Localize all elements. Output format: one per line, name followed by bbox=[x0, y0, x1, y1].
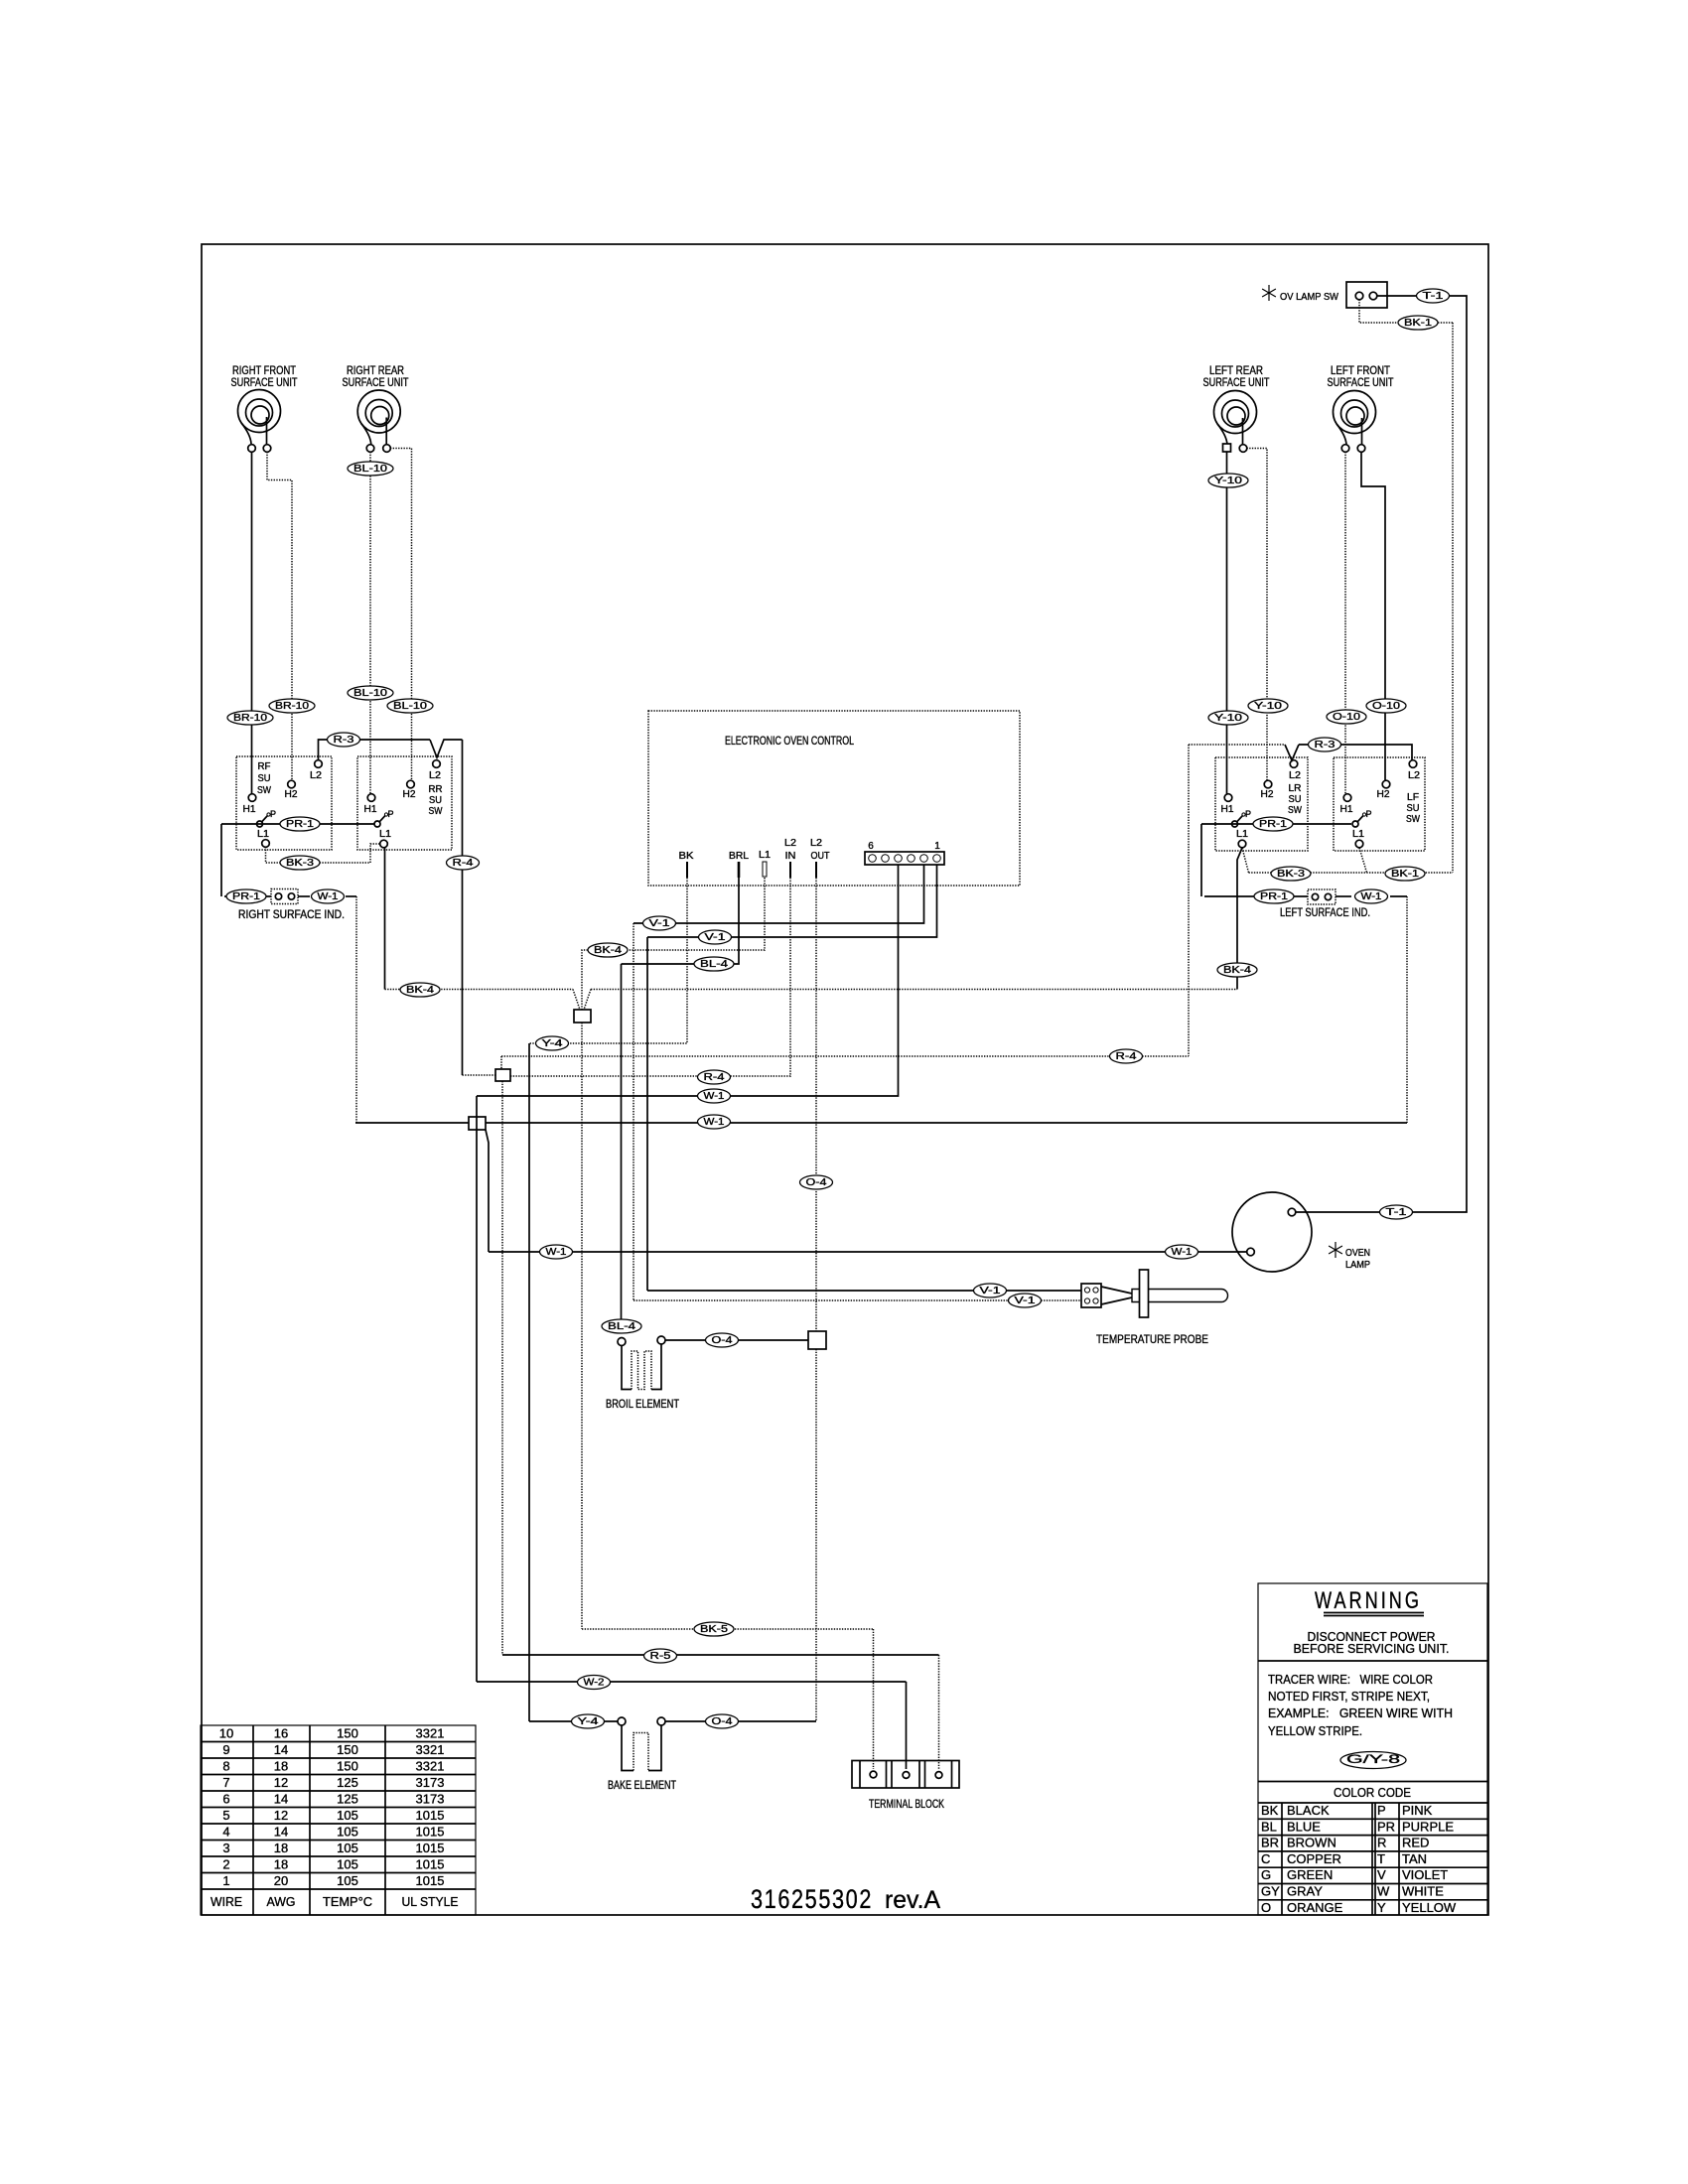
svg-text:L1: L1 bbox=[257, 829, 269, 840]
wire PR-1 pilot line right bbox=[1201, 817, 1351, 896]
wire R-3 RF L2 to RR L2 bbox=[319, 733, 463, 760]
drawing number 316255302 rev.A bbox=[751, 1884, 940, 1914]
svg-text:BK-5: BK-5 bbox=[700, 1624, 729, 1635]
svg-text:LAMP: LAMP bbox=[1345, 1260, 1370, 1271]
wire BL-10 right rear H1 bbox=[348, 452, 393, 794]
wire O-4 L2 OUT down bbox=[800, 878, 833, 1721]
svg-text:6: 6 bbox=[222, 1791, 229, 1806]
svg-text:SW: SW bbox=[1406, 814, 1420, 825]
warning box bbox=[1258, 1583, 1487, 1915]
wire O-10 left front H1 bbox=[1327, 452, 1366, 794]
svg-text:PINK: PINK bbox=[1402, 1803, 1433, 1818]
svg-text:1015: 1015 bbox=[416, 1873, 445, 1888]
svg-text:LF: LF bbox=[1407, 792, 1419, 803]
svg-text:W-1: W-1 bbox=[704, 1117, 725, 1128]
svg-text:1015: 1015 bbox=[416, 1856, 445, 1871]
svg-text:105: 105 bbox=[337, 1856, 358, 1871]
wire O-10 left front H2 bbox=[1361, 452, 1406, 780]
svg-text:150: 150 bbox=[337, 1725, 358, 1740]
svg-text:12: 12 bbox=[274, 1775, 288, 1790]
svg-text:GREEN: GREEN bbox=[1287, 1867, 1333, 1882]
coil right rear surface unit bbox=[357, 390, 400, 452]
svg-text:R-5: R-5 bbox=[650, 1651, 672, 1662]
svg-text:W-1: W-1 bbox=[318, 891, 339, 902]
svg-text:3173: 3173 bbox=[416, 1791, 445, 1806]
svg-text:O-10: O-10 bbox=[1372, 701, 1401, 712]
svg-text:OUT: OUT bbox=[811, 851, 830, 862]
svg-text:RIGHT SURFACE IND.: RIGHT SURFACE IND. bbox=[238, 909, 345, 921]
EOC terminal L2 OUT bbox=[810, 838, 830, 878]
svg-text:AWG: AWG bbox=[267, 1894, 296, 1909]
svg-text:BL: BL bbox=[1261, 1819, 1277, 1834]
svg-text:105: 105 bbox=[337, 1824, 358, 1839]
svg-text:O-10: O-10 bbox=[1333, 712, 1361, 723]
wire BR-10 right front H1 bbox=[227, 452, 273, 794]
svg-text:3321: 3321 bbox=[416, 1742, 445, 1757]
svg-text:TERMINAL BLOCK: TERMINAL BLOCK bbox=[869, 1797, 944, 1811]
svg-text:316255302: 316255302 bbox=[751, 1884, 873, 1914]
svg-text:O-4: O-4 bbox=[806, 1177, 828, 1188]
splice junction broil bbox=[808, 1331, 826, 1349]
svg-text:R-4: R-4 bbox=[704, 1072, 726, 1083]
svg-text:4: 4 bbox=[222, 1824, 229, 1839]
svg-text:16: 16 bbox=[274, 1725, 288, 1740]
EOC connector pins 6-1 bbox=[865, 841, 944, 865]
svg-text:1015: 1015 bbox=[416, 1841, 445, 1855]
LF surface unit switch box bbox=[1334, 757, 1425, 851]
svg-text:PR-1: PR-1 bbox=[286, 819, 315, 830]
wire R-3 right down bbox=[1188, 745, 1190, 1056]
svg-text:BK-1: BK-1 bbox=[1391, 869, 1420, 880]
coil left rear surface unit bbox=[1214, 391, 1257, 453]
svg-text:105: 105 bbox=[337, 1873, 358, 1888]
svg-text:RIGHT FRONT: RIGHT FRONT bbox=[232, 365, 296, 377]
svg-text:W-1: W-1 bbox=[1361, 891, 1382, 902]
svg-text:SW: SW bbox=[429, 806, 443, 817]
svg-text:Y-10: Y-10 bbox=[1254, 701, 1283, 712]
svg-text:5: 5 bbox=[222, 1808, 229, 1823]
wire O-4 broil to junction bbox=[665, 1333, 808, 1347]
svg-text:TEMP°C: TEMP°C bbox=[323, 1894, 372, 1909]
svg-text:PR-1: PR-1 bbox=[1259, 819, 1288, 830]
wire BR-10 right front H2 bbox=[267, 452, 315, 780]
wire O-4 to bake element bbox=[665, 1714, 816, 1728]
oven lamp bbox=[1232, 1192, 1370, 1272]
svg-text:2: 2 bbox=[222, 1856, 229, 1871]
svg-text:L2: L2 bbox=[810, 838, 822, 849]
svg-text:RF: RF bbox=[258, 761, 271, 772]
svg-text:COLOR CODE: COLOR CODE bbox=[1334, 1785, 1411, 1800]
svg-text:1: 1 bbox=[222, 1873, 229, 1888]
svg-text:WARNING: WARNING bbox=[1315, 1587, 1422, 1614]
svg-text:SU: SU bbox=[429, 795, 442, 806]
wire V-1 probe dashed bbox=[633, 923, 1081, 1307]
svg-text:14: 14 bbox=[274, 1791, 288, 1806]
svg-text:L1: L1 bbox=[379, 829, 391, 840]
svg-text:PR-1: PR-1 bbox=[232, 891, 261, 902]
svg-text:105: 105 bbox=[337, 1808, 358, 1823]
EOC terminal L2 IN bbox=[784, 838, 796, 878]
svg-text:YELLOW: YELLOW bbox=[1402, 1900, 1457, 1915]
wire RR L1 down bbox=[384, 848, 386, 990]
svg-text:SURFACE UNIT: SURFACE UNIT bbox=[1328, 377, 1394, 389]
svg-text:W: W bbox=[1377, 1884, 1390, 1899]
svg-text:SU: SU bbox=[1407, 803, 1420, 814]
svg-text:PURPLE: PURPLE bbox=[1402, 1819, 1454, 1834]
svg-text:T-1: T-1 bbox=[1423, 291, 1445, 302]
svg-text:14: 14 bbox=[274, 1742, 288, 1757]
svg-text:V-1: V-1 bbox=[980, 1286, 1002, 1297]
svg-text:V-1: V-1 bbox=[649, 918, 671, 929]
wire BK-3 RF L1 to RR L1 bbox=[266, 844, 381, 870]
color code table bbox=[1258, 1803, 1487, 1915]
svg-text:R: R bbox=[1377, 1836, 1386, 1850]
wire V-1 probe solid bbox=[647, 937, 1081, 1297]
RF surface unit switch box bbox=[236, 756, 332, 850]
svg-text:18: 18 bbox=[274, 1841, 288, 1855]
svg-text:105: 105 bbox=[337, 1841, 358, 1855]
svg-text:R-4: R-4 bbox=[453, 858, 475, 869]
svg-text:L1: L1 bbox=[1352, 829, 1364, 840]
svg-text:BAKE ELEMENT: BAKE ELEMENT bbox=[608, 1778, 676, 1792]
svg-text:3173: 3173 bbox=[416, 1775, 445, 1790]
wire BK-4 junction line bbox=[385, 983, 1238, 1010]
wire W-1 to oven lamp bbox=[489, 1245, 1247, 1259]
wire gauge table bbox=[201, 1725, 476, 1915]
wire W-2 to terminal block bbox=[477, 1676, 907, 1770]
svg-text:BK-3: BK-3 bbox=[286, 858, 315, 869]
svg-text:LEFT FRONT: LEFT FRONT bbox=[1331, 365, 1390, 377]
svg-text:12: 12 bbox=[274, 1808, 288, 1823]
svg-text:BEFORE SERVICING UNIT.: BEFORE SERVICING UNIT. bbox=[1294, 1641, 1450, 1656]
wire Y-4 EOC BK bbox=[529, 878, 687, 1050]
svg-text:BLUE: BLUE bbox=[1287, 1819, 1321, 1834]
wire BL-4 EOC BRL to broil bbox=[622, 878, 740, 971]
svg-text:R-3: R-3 bbox=[334, 735, 355, 746]
RF pilot contact P bbox=[257, 809, 277, 827]
svg-text:125: 125 bbox=[337, 1791, 358, 1806]
svg-text:G: G bbox=[1261, 1867, 1271, 1882]
wire PR-1 pilot line left bbox=[221, 817, 374, 896]
svg-text:YELLOW STRIPE.: YELLOW STRIPE. bbox=[1268, 1723, 1362, 1738]
svg-text:EXAMPLE: GREEN WIRE WITH: EXAMPLE: GREEN WIRE WITH bbox=[1268, 1706, 1453, 1720]
svg-text:T-1: T-1 bbox=[1386, 1207, 1408, 1218]
svg-text:125: 125 bbox=[337, 1775, 358, 1790]
svg-text:H1: H1 bbox=[1340, 804, 1353, 815]
svg-text:NOTED FIRST, STRIPE NEXT,: NOTED FIRST, STRIPE NEXT, bbox=[1268, 1689, 1430, 1704]
svg-text:3321: 3321 bbox=[416, 1758, 445, 1773]
svg-text:Y: Y bbox=[1377, 1900, 1386, 1915]
svg-text:3321: 3321 bbox=[416, 1725, 445, 1740]
svg-text:O-4: O-4 bbox=[712, 1335, 734, 1346]
EOC terminal BK bbox=[679, 851, 694, 878]
wire V-1 pin2 horizontal bbox=[633, 865, 924, 930]
svg-text:W-1: W-1 bbox=[704, 1091, 725, 1102]
svg-text:P: P bbox=[270, 809, 276, 819]
svg-text:BK-1: BK-1 bbox=[1404, 318, 1433, 329]
wire BK down to BK-5 bbox=[581, 1023, 583, 1629]
svg-text:BL-4: BL-4 bbox=[700, 959, 729, 970]
wire BK-5 to terminal block bbox=[582, 1622, 874, 1769]
svg-text:GY: GY bbox=[1261, 1884, 1280, 1899]
bake element bbox=[608, 1717, 676, 1792]
svg-text:G/Y-8: G/Y-8 bbox=[1346, 1752, 1401, 1766]
svg-text:BK: BK bbox=[1261, 1803, 1279, 1818]
wire R-4 long line bbox=[501, 1049, 1189, 1069]
svg-text:L1: L1 bbox=[759, 850, 771, 861]
RR pilot contact P bbox=[374, 809, 394, 827]
wire R-3 right side bbox=[1189, 738, 1412, 760]
svg-text:BK-4: BK-4 bbox=[406, 985, 435, 996]
broil element bbox=[602, 1319, 680, 1411]
svg-text:9: 9 bbox=[222, 1742, 229, 1757]
wire BL-4 down to broil bbox=[621, 964, 623, 1321]
svg-text:TAN: TAN bbox=[1402, 1851, 1427, 1866]
svg-text:Y-4: Y-4 bbox=[542, 1038, 564, 1049]
wire R-5 to terminal block bbox=[502, 1649, 939, 1769]
border frame bbox=[202, 244, 1488, 1915]
svg-text:L2: L2 bbox=[784, 838, 796, 849]
svg-text:BR-10: BR-10 bbox=[275, 701, 310, 712]
wire BK-3 BK-1 LR L1 LF L1 bbox=[1242, 848, 1453, 881]
svg-text:L2: L2 bbox=[310, 770, 322, 781]
terminal block bbox=[852, 1761, 959, 1812]
svg-text:L1: L1 bbox=[1236, 829, 1248, 840]
svg-text:ELECTRONIC OVEN CONTROL: ELECTRONIC OVEN CONTROL bbox=[725, 734, 854, 748]
coil right front surface unit bbox=[238, 390, 281, 453]
svg-text:LEFT SURFACE IND.: LEFT SURFACE IND. bbox=[1280, 907, 1370, 919]
svg-text:RR: RR bbox=[429, 784, 443, 795]
svg-text:P: P bbox=[1245, 809, 1251, 819]
svg-text:LR: LR bbox=[1289, 783, 1302, 794]
wire BK-4 EOC L1 bbox=[582, 878, 765, 1010]
svg-text:BK-3: BK-3 bbox=[1277, 869, 1306, 880]
svg-text:BL-10: BL-10 bbox=[353, 688, 388, 699]
wire W-1 long line bbox=[355, 1115, 1407, 1129]
svg-text:BROIL ELEMENT: BROIL ELEMENT bbox=[606, 1397, 680, 1411]
svg-text:BR: BR bbox=[1261, 1836, 1279, 1850]
svg-text:LEFT REAR: LEFT REAR bbox=[1209, 365, 1263, 377]
svg-text:Y-10: Y-10 bbox=[1214, 713, 1243, 724]
svg-text:H1: H1 bbox=[243, 804, 256, 815]
svg-text:18: 18 bbox=[274, 1856, 288, 1871]
svg-text:SU: SU bbox=[258, 773, 271, 784]
svg-text:W-1: W-1 bbox=[1172, 1247, 1193, 1258]
svg-text:1: 1 bbox=[934, 841, 940, 852]
svg-text:L2: L2 bbox=[1408, 770, 1420, 781]
wire Y-4 to bake element bbox=[529, 1714, 618, 1728]
svg-text:BROWN: BROWN bbox=[1287, 1836, 1336, 1850]
svg-text:VIOLET: VIOLET bbox=[1402, 1867, 1448, 1882]
wire W-1 pin4 to left bbox=[477, 865, 899, 1103]
wire Y-10 left rear H2 bbox=[1247, 449, 1289, 781]
svg-text:P: P bbox=[388, 809, 394, 819]
svg-text:TEMPERATURE PROBE: TEMPERATURE PROBE bbox=[1096, 1332, 1208, 1346]
svg-text:SURFACE UNIT: SURFACE UNIT bbox=[343, 377, 409, 389]
svg-text:8: 8 bbox=[222, 1758, 229, 1773]
svg-text:OVEN: OVEN bbox=[1345, 1248, 1370, 1259]
svg-text:1015: 1015 bbox=[416, 1824, 445, 1839]
svg-text:H2: H2 bbox=[1377, 789, 1390, 800]
RR surface unit switch box bbox=[357, 756, 452, 850]
svg-text:L2: L2 bbox=[429, 770, 441, 781]
oven lamp switch bbox=[1262, 282, 1387, 308]
svg-text:L2: L2 bbox=[1289, 770, 1301, 781]
svg-text:BK: BK bbox=[679, 851, 694, 862]
wire W-1 left indicator down bbox=[1406, 896, 1408, 1123]
coil left front surface unit bbox=[1334, 391, 1376, 453]
wire BL-10 right rear H2 bbox=[387, 449, 433, 781]
svg-text:COPPER: COPPER bbox=[1287, 1851, 1341, 1866]
svg-text:H1: H1 bbox=[1221, 804, 1234, 815]
svg-text:BK-4: BK-4 bbox=[1223, 965, 1252, 976]
svg-text:Y-4: Y-4 bbox=[578, 1716, 600, 1727]
svg-text:R-3: R-3 bbox=[1315, 740, 1336, 751]
svg-text:P: P bbox=[1377, 1803, 1386, 1818]
svg-text:T: T bbox=[1377, 1851, 1385, 1866]
svg-text:H1: H1 bbox=[364, 804, 377, 815]
wire Y-10 left rear H1 bbox=[1208, 452, 1248, 794]
EOC terminal BRL bbox=[729, 851, 749, 878]
svg-text:ORANGE: ORANGE bbox=[1287, 1900, 1343, 1915]
wire V-1 pin1 horizontal bbox=[647, 865, 937, 944]
svg-text:V-1: V-1 bbox=[1015, 1296, 1037, 1306]
svg-text:6: 6 bbox=[868, 841, 874, 852]
svg-text:H2: H2 bbox=[1261, 789, 1274, 800]
svg-text:SW: SW bbox=[1288, 805, 1302, 816]
svg-text:BL-4: BL-4 bbox=[608, 1321, 636, 1332]
svg-text:BK-4: BK-4 bbox=[594, 945, 623, 956]
EOC terminal L1 bbox=[759, 850, 771, 877]
wire R-4 to L2 IN bbox=[463, 878, 791, 1084]
wire Y-4 down to bake bbox=[528, 1043, 530, 1721]
svg-text:TRACER WIRE: WIRE COLOR: TRACER WIRE: WIRE COLOR bbox=[1268, 1672, 1433, 1687]
wire R down to R-5 bbox=[501, 1081, 503, 1655]
temperature probe bbox=[1081, 1270, 1228, 1346]
svg-text:BLACK: BLACK bbox=[1287, 1803, 1330, 1818]
svg-text:SURFACE UNIT: SURFACE UNIT bbox=[1203, 377, 1270, 389]
wire T-1 lamp switch to oven lamp bbox=[1295, 289, 1467, 1219]
svg-text:20: 20 bbox=[274, 1873, 288, 1888]
svg-text:UL STYLE: UL STYLE bbox=[402, 1894, 459, 1909]
svg-text:RED: RED bbox=[1402, 1836, 1429, 1850]
svg-text:C: C bbox=[1261, 1851, 1270, 1866]
wire W down to W-2 bbox=[476, 1096, 478, 1682]
svg-text:BR-10: BR-10 bbox=[233, 713, 268, 724]
svg-text:PR-1: PR-1 bbox=[1260, 891, 1289, 902]
svg-text:150: 150 bbox=[337, 1758, 358, 1773]
splice junction W bbox=[469, 1117, 489, 1252]
svg-text:O: O bbox=[1261, 1900, 1271, 1915]
svg-text:SU: SU bbox=[1289, 794, 1302, 805]
wire W-1 right indicator down bbox=[355, 896, 357, 1123]
svg-text:10: 10 bbox=[219, 1725, 233, 1740]
svg-text:14: 14 bbox=[274, 1824, 288, 1839]
svg-text:IN: IN bbox=[785, 851, 796, 862]
svg-text:BRL: BRL bbox=[729, 851, 749, 862]
svg-text:Y-10: Y-10 bbox=[1214, 476, 1243, 486]
svg-text:P: P bbox=[1366, 809, 1372, 819]
svg-text:H2: H2 bbox=[285, 789, 298, 800]
wire BK-1 lamp switch down bbox=[1359, 300, 1453, 874]
splice junction R bbox=[495, 1069, 510, 1081]
svg-text:SURFACE UNIT: SURFACE UNIT bbox=[231, 377, 298, 389]
svg-text:150: 150 bbox=[337, 1742, 358, 1757]
svg-text:OV LAMP SW: OV LAMP SW bbox=[1280, 291, 1338, 303]
LF pilot contact P bbox=[1352, 809, 1372, 827]
svg-text:18: 18 bbox=[274, 1758, 288, 1773]
svg-text:O-4: O-4 bbox=[712, 1716, 734, 1727]
svg-text:WHITE: WHITE bbox=[1402, 1884, 1444, 1899]
wire R-4 left down bbox=[447, 740, 480, 1075]
svg-text:GRAY: GRAY bbox=[1287, 1884, 1323, 1899]
svg-text:rev.A: rev.A bbox=[885, 1886, 940, 1914]
svg-text:PR: PR bbox=[1377, 1819, 1395, 1834]
svg-text:V-1: V-1 bbox=[705, 932, 727, 943]
svg-text:7: 7 bbox=[222, 1775, 229, 1790]
LR pilot contact P bbox=[1232, 809, 1252, 827]
svg-text:V: V bbox=[1377, 1867, 1386, 1882]
svg-text:R-4: R-4 bbox=[1116, 1051, 1138, 1062]
wire LR L1 down BK-4 bbox=[1217, 848, 1257, 990]
svg-text:H2: H2 bbox=[403, 789, 416, 800]
right surface indicator bbox=[224, 889, 356, 922]
svg-text:BL-10: BL-10 bbox=[393, 701, 428, 712]
electronic oven control box bbox=[648, 711, 1020, 886]
svg-text:BL-10: BL-10 bbox=[353, 464, 388, 475]
svg-text:3: 3 bbox=[222, 1841, 229, 1855]
svg-text:W-1: W-1 bbox=[546, 1247, 567, 1258]
svg-text:SW: SW bbox=[257, 785, 271, 796]
svg-text:1015: 1015 bbox=[416, 1808, 445, 1823]
svg-text:WIRE: WIRE bbox=[211, 1894, 242, 1909]
splice junction BK bbox=[574, 1010, 591, 1023]
svg-text:RIGHT REAR: RIGHT REAR bbox=[347, 365, 404, 377]
svg-text:W-2: W-2 bbox=[584, 1677, 605, 1688]
left surface indicator bbox=[1204, 889, 1407, 919]
LR surface unit switch box bbox=[1215, 757, 1308, 851]
